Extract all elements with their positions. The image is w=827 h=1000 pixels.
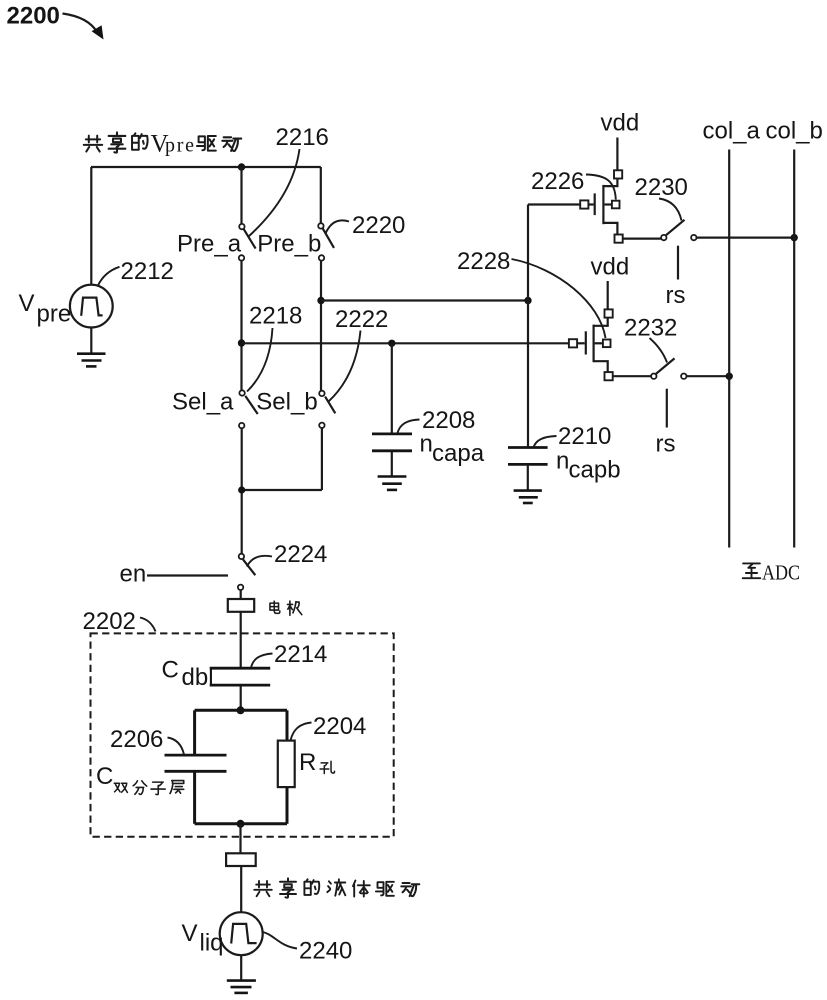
- wire: en control: [147, 574, 228, 576]
- figure arrow: [63, 14, 104, 40]
- ground (n_capa): [378, 477, 407, 490]
- wire: RC right lower: [286, 787, 289, 824]
- wire: RC left upper: [193, 710, 196, 755]
- leader from 2202 to box: [140, 618, 156, 632]
- svg-text:2202: 2202: [83, 608, 136, 635]
- node: col_a tap: [726, 373, 733, 380]
- svg-text:2232: 2232: [624, 315, 677, 342]
- svg-text:2230: 2230: [635, 174, 688, 201]
- wire: Sel_a lower: [241, 428, 243, 554]
- wire: 2230 to col_b: [696, 237, 794, 239]
- wire: rs control (lower): [666, 389, 668, 428]
- switch 2216 Pre_a: [239, 224, 256, 261]
- voltage source V_liq 2240: [220, 912, 263, 955]
- wire: 2224 to electrode: [240, 590, 242, 599]
- svg-text:n: n: [556, 448, 569, 475]
- wire: top shared Vpre rail: [91, 166, 321, 168]
- svg-text:en: en: [120, 561, 147, 588]
- svg-text:pre: pre: [37, 301, 72, 328]
- leader from 2224 to switch: [247, 556, 272, 567]
- capacitor 2208 n_capa plates: [372, 434, 412, 451]
- svg-text:Sel_a: Sel_a: [172, 389, 234, 416]
- svg-text:2210: 2210: [558, 423, 611, 450]
- leader from 2214 to C_dbl: [251, 654, 273, 668]
- wire: vdd to 2226 drain: [616, 138, 618, 171]
- svg-text:C: C: [96, 763, 113, 790]
- wire: RC box top: [195, 709, 287, 712]
- wire: n_capa branch: [391, 343, 393, 433]
- wire: RC bottom to lower electrode: [239, 824, 241, 854]
- svg-text:vdd: vdd: [591, 254, 630, 281]
- label n_capb: [556, 448, 621, 484]
- electrode (top): [228, 599, 254, 612]
- label C_dbl: [162, 657, 214, 692]
- node: Sel join: [238, 486, 245, 493]
- wire: 2228 source to switch 2232: [613, 375, 651, 377]
- svg-text:Pre_a: Pre_a: [177, 231, 242, 258]
- label: 共享的液体驱动: [254, 878, 419, 897]
- svg-text:pre: pre: [165, 135, 194, 157]
- wire: Pre_b branch stub: [320, 167, 322, 223]
- label 电极: [270, 601, 302, 615]
- leader from 2218 to Sel_a: [247, 328, 273, 392]
- transistor 2226: [580, 170, 623, 242]
- resistor 2204 body: [278, 741, 295, 788]
- svg-text:2216: 2216: [276, 124, 329, 151]
- svg-text:2228: 2228: [457, 248, 510, 275]
- wire: electrode into cell box: [240, 612, 242, 667]
- leader from 2210 to n_capb: [534, 436, 557, 447]
- svg-text:2214: 2214: [274, 641, 327, 668]
- svg-text:R: R: [299, 749, 316, 776]
- node: Pre_a / sense wire: [238, 339, 245, 346]
- leader from 2222 to Sel_b: [329, 331, 361, 402]
- svg-text:Sel_b: Sel_b: [256, 389, 317, 416]
- svg-text:C: C: [162, 657, 179, 684]
- svg-text:liq: liq: [200, 930, 224, 957]
- transistor 2228: [569, 309, 613, 380]
- wire: vdd to 2228 drain: [607, 281, 609, 309]
- wire: rs control (upper): [677, 246, 679, 280]
- wire: sense link to gate of 2228: [242, 342, 569, 344]
- electrode (bottom): [226, 853, 256, 866]
- ground (Vpre): [77, 354, 106, 367]
- wire: n_capb column vertical: [527, 205, 529, 447]
- svg-text:2240: 2240: [299, 938, 352, 965]
- node: top rail junction: [238, 163, 245, 170]
- ground (n_capb): [514, 491, 542, 503]
- svg-text:2224: 2224: [274, 541, 327, 568]
- wire: col_a column: [728, 150, 730, 548]
- svg-text:col_b: col_b: [766, 118, 823, 145]
- wire: 2232 to col_a: [686, 375, 729, 377]
- svg-text:2218: 2218: [249, 303, 302, 330]
- leader from 2216 to Pre_a: [249, 149, 300, 237]
- node: RC top: [237, 706, 245, 714]
- node: col_b tap: [791, 234, 798, 241]
- wire: RC box bottom: [195, 822, 287, 825]
- wire: Pre_a lower branch: [240, 261, 242, 391]
- svg-text:V: V: [19, 290, 35, 317]
- wire: Vpre to ground: [90, 328, 92, 354]
- leader from 2230 to switch: [659, 199, 682, 221]
- wire: Pre_b lower branch: [320, 261, 322, 391]
- label 至ADC: [743, 561, 800, 585]
- svg-text:2212: 2212: [121, 258, 174, 285]
- wire: n_capa to ground: [391, 452, 393, 477]
- wire: C_dbl to RC pair: [240, 686, 242, 710]
- svg-text:2200: 2200: [7, 3, 60, 30]
- svg-text:V: V: [182, 920, 198, 947]
- svg-text:2220: 2220: [352, 212, 405, 239]
- dashed box 2202 (cell): [91, 633, 394, 836]
- wire: Sel join: [242, 489, 322, 491]
- wire: col_b column: [793, 150, 795, 548]
- wire: 2226 source to switch 2230: [623, 238, 661, 240]
- svg-text:rs: rs: [656, 431, 676, 458]
- svg-text:2206: 2206: [110, 726, 163, 753]
- svg-text:2204: 2204: [313, 713, 366, 740]
- label C_双分子层: [96, 763, 184, 795]
- leader from 2226 to transistor: [586, 175, 616, 200]
- wire: Pre_a branch stub: [240, 167, 242, 224]
- voltage source V_pre 2212: [70, 285, 113, 328]
- node: RC bottom: [237, 820, 245, 828]
- capacitor 2214 C_dbl: [210, 668, 271, 685]
- svg-text:2226: 2226: [531, 168, 584, 195]
- svg-text:dbl: dbl: [182, 664, 214, 691]
- wire: V_liq to ground: [240, 955, 242, 980]
- node: precharge link / n_capb column: [524, 297, 531, 304]
- label V_pre: [19, 290, 72, 328]
- switch 2220 Pre_b: [318, 223, 334, 260]
- switch 2222 Sel_b: [319, 391, 335, 428]
- figure number 2200: [7, 3, 60, 30]
- switch 2232: [651, 358, 686, 379]
- svg-text:capb: capb: [569, 457, 621, 484]
- switch 2218 Sel_a: [239, 390, 258, 428]
- leader from 2208 to n_capa: [398, 420, 420, 434]
- svg-text:rs: rs: [666, 282, 686, 309]
- svg-text:n: n: [420, 431, 433, 458]
- switch 2230: [661, 220, 696, 241]
- wire: gate 2226 to n_capb column: [528, 203, 580, 205]
- wire: n_capb to ground: [527, 466, 529, 491]
- node: sense wire / n_capa branch: [388, 340, 395, 347]
- svg-text:capa: capa: [432, 440, 485, 467]
- leader from 2204 to resistor: [291, 723, 312, 741]
- wire: left rail down to Vpre source: [90, 167, 92, 285]
- leader from 2206 to cap: [168, 738, 185, 755]
- node: Pre_b / precharge link: [317, 297, 324, 304]
- wire: RC left lower: [193, 771, 196, 824]
- svg-text:vdd: vdd: [601, 110, 640, 137]
- svg-text:ADC: ADC: [762, 561, 800, 585]
- ground (V_liq): [227, 981, 256, 993]
- svg-text:Pre_b: Pre_b: [257, 231, 321, 258]
- leader from 2232 to switch: [650, 338, 668, 363]
- wire: RC right upper: [286, 710, 289, 740]
- wire: electrode to V_liq: [240, 866, 242, 912]
- svg-text:col_a: col_a: [703, 118, 761, 145]
- svg-text:2222: 2222: [335, 306, 388, 333]
- label V_liq: [182, 920, 224, 957]
- label n_capa: [420, 431, 485, 467]
- switch 2224 enable: [238, 554, 255, 590]
- leader from 2220 to Pre_b: [326, 220, 350, 233]
- capacitor 2210 n_capb plates: [508, 448, 548, 465]
- leader to 2212: [98, 267, 120, 287]
- leader from 2228 to transistor: [512, 259, 606, 338]
- wire: precharge link to n_capb column: [321, 299, 528, 301]
- leader from 2240 to source: [263, 932, 297, 949]
- label R_孔: [299, 749, 335, 776]
- wire: Sel_b lower: [321, 428, 323, 490]
- capacitor 2206 plates: [165, 755, 227, 771]
- label: 共享的Vpre驱动: [84, 131, 241, 158]
